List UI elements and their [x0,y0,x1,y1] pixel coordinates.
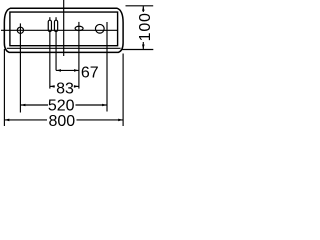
left 800 extension line [3,49,5,126]
dim 83 line left stub [50,85,55,87]
svg-text:83: 83 [56,80,74,97]
vertical center line [63,0,65,56]
dim 520 right arrow [102,104,107,107]
dim 520 left arrow [21,104,26,107]
twin slot 1 [48,20,51,31]
dim 67 left arrow [56,69,61,72]
horizontal slot extension line [78,22,80,89]
crease line at bottom of body [7,47,121,49]
dim 67 right arrow [74,69,79,72]
dim 100 vertical line [142,6,144,12]
dim 83 left arrow [50,85,55,88]
dim 100 top extension line [126,5,154,7]
dim 520 line [21,104,49,106]
dim 100 bottom extension line [122,49,154,51]
dim 100 bottom arrow [142,45,145,50]
slot 2 top tick [55,17,57,20]
slot 2 extension line [55,32,57,71]
slot 1 top tick [49,17,51,20]
svg-text:67: 67 [81,64,99,81]
dim 800 right arrow [118,119,123,122]
twin slot 2 [54,20,57,31]
right 520 extension line [106,22,108,112]
slot 1 extension line [49,32,51,89]
dim 83 line right stub [74,85,79,87]
fixture outer body outline [4,8,123,52]
dim 67 line [56,69,79,71]
horizontal slot [75,26,83,30]
large knockout circle [95,24,104,33]
horizontal centerline [1,29,118,31]
dim 800 left arrow [5,119,10,122]
fixture inner rectangle [10,12,118,46]
svg-text:800: 800 [48,113,75,130]
dim 800 line [5,119,48,121]
right 800 extension line [122,54,124,127]
dim 83 right arrow [74,85,79,88]
dim 100 top arrow [142,6,145,11]
left mounting hole [17,27,23,33]
left hole extension line [19,23,21,112]
svg-text:100: 100 [137,12,154,41]
